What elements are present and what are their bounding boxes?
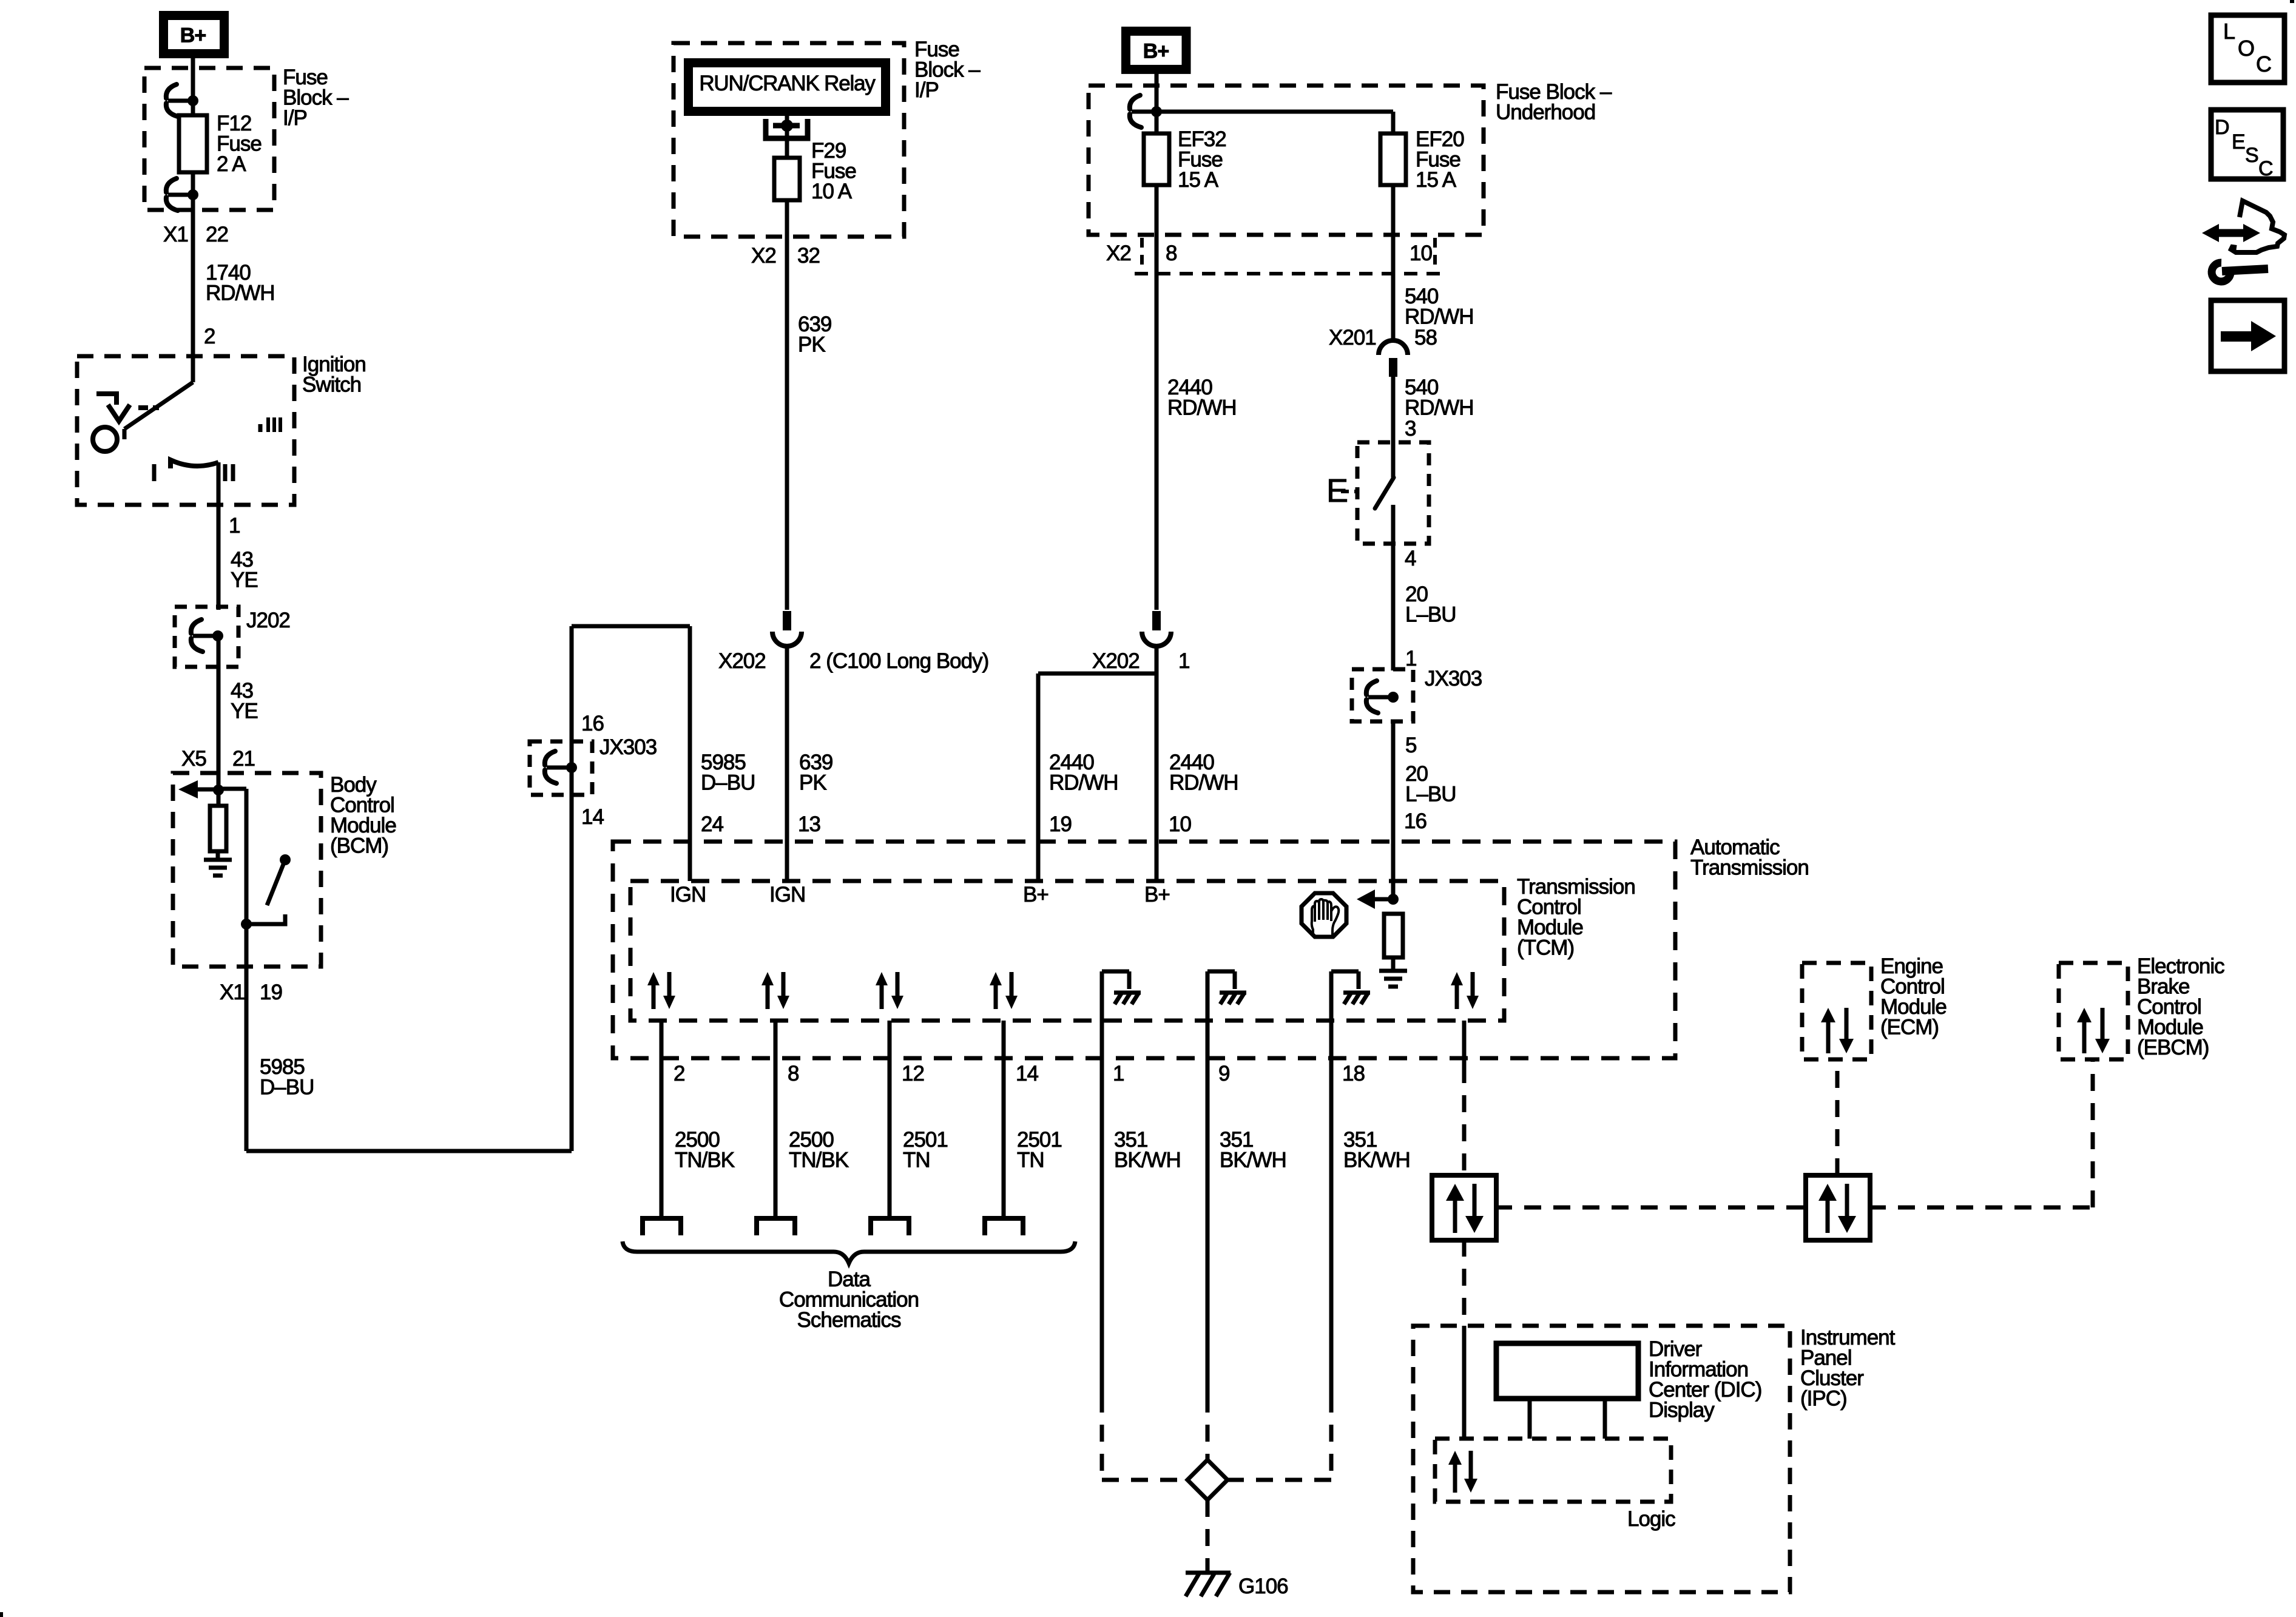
svg-text:21: 21 xyxy=(232,747,255,771)
TCM pin 1 bracket vertical xyxy=(1100,971,1104,1021)
svg-text:EF32Fuse15 A: EF32Fuse15 A xyxy=(1178,127,1226,192)
ground G106 symbol xyxy=(1186,1573,1231,1596)
BCM internal arrow left xyxy=(178,780,218,798)
serial data dashed up to ECM xyxy=(1835,1059,1840,1175)
svg-text:540RD/WH: 540RD/WH xyxy=(1405,285,1474,329)
BCM resistor lower lead xyxy=(216,851,220,860)
svg-text:F12Fuse2 A: F12Fuse2 A xyxy=(217,112,262,176)
page corner mark xyxy=(2290,0,2294,3)
ignition switch output wire xyxy=(217,462,221,610)
page corner mark bottom left xyxy=(0,1612,3,1617)
DIC display box xyxy=(1496,1343,1638,1399)
DLC stub connector pin 12 xyxy=(871,1218,909,1235)
svg-text:FuseBlock –I/P: FuseBlock –I/P xyxy=(914,38,981,102)
switch E output stub xyxy=(1391,505,1396,544)
svg-text:X2: X2 xyxy=(751,244,776,268)
svg-text:JX303: JX303 xyxy=(599,735,657,759)
stop-hand octagon symbol xyxy=(1302,893,1346,937)
BCM internal ground xyxy=(204,860,232,876)
wire 5985 D-BU bottom horizontal run xyxy=(246,1149,572,1153)
serial data box arrows (TCM side) xyxy=(1446,1184,1484,1233)
TCM pin 9 bracket vertical xyxy=(1206,971,1210,1021)
wire B+ down to EF32 xyxy=(1155,73,1159,133)
BCM switch blade diagonal xyxy=(267,860,285,905)
svg-text:DriverInformationCenter (DIC)D: DriverInformationCenter (DIC)Display xyxy=(1649,1337,1761,1422)
wire 20 L-BU lower xyxy=(1391,721,1396,899)
svg-text:1: 1 xyxy=(1405,647,1416,670)
svg-text:2: 2 xyxy=(204,325,215,348)
B+ battery feed terminal (right) xyxy=(1126,31,1187,69)
svg-text:1: 1 xyxy=(229,514,240,538)
svg-text:14: 14 xyxy=(1016,1062,1038,1085)
svg-text:EngineControlModule(ECM): EngineControlModule(ECM) xyxy=(1880,954,1947,1039)
svg-text:B+: B+ xyxy=(1144,883,1170,906)
wire B+ to ignition switch vertical xyxy=(191,58,195,382)
dashed wire pin18 to diamond xyxy=(1226,1478,1331,1482)
svg-text:8: 8 xyxy=(788,1062,799,1085)
wire 2440 RD/WH long vertical xyxy=(1155,185,1159,610)
svg-text:18: 18 xyxy=(1342,1062,1365,1085)
IPC logic dashed box xyxy=(1435,1439,1671,1502)
TCM pin 18 bracket down leg xyxy=(1357,971,1361,989)
svg-text:D: D xyxy=(2215,116,2229,139)
svg-text:3: 3 xyxy=(1405,417,1416,441)
body control module BCM dashed box xyxy=(173,773,321,967)
svg-text:351BK/WH: 351BK/WH xyxy=(1220,1128,1286,1172)
TCM pin 18 bracket horizontal xyxy=(1331,970,1359,974)
X2 connector row bottom dashed xyxy=(1135,272,1444,275)
wire pin 8 down to DLC stub xyxy=(774,1021,778,1218)
dashed wire pin1 to diamond xyxy=(1102,1478,1190,1482)
ignition key symbol xyxy=(96,394,159,421)
DLC stub connector pin 2 xyxy=(643,1218,681,1235)
DIC display left leg xyxy=(1528,1399,1532,1439)
svg-text:2440RD/WH: 2440RD/WH xyxy=(1169,751,1238,795)
svg-text:19: 19 xyxy=(1049,812,1072,836)
BCM internal wire to junction xyxy=(217,773,221,807)
svg-text:8: 8 xyxy=(1166,241,1177,265)
wire 20 L-BU upper xyxy=(1391,544,1396,670)
svg-text:E: E xyxy=(2232,130,2245,154)
TCM pin 18 chassis ground hatch xyxy=(1343,993,1370,1004)
svg-text:B+: B+ xyxy=(1143,39,1169,62)
wire 2440 to TCM pin 19 xyxy=(1036,673,1041,881)
BCM pull-up resistor xyxy=(210,806,226,851)
bus wire EF32 to EF20 xyxy=(1156,110,1393,114)
wire 2440 to TCM pin 10 xyxy=(1155,645,1159,881)
wire 540 RD/WH upper vertical xyxy=(1391,185,1396,340)
BCM branch horizontal to switch leg xyxy=(218,787,246,791)
underhood fuse block input clip xyxy=(1130,95,1162,127)
svg-text:13: 13 xyxy=(798,812,820,836)
BCM switch upper contact dot xyxy=(280,854,291,865)
TCM internal ground xyxy=(1379,971,1407,987)
svg-text:58: 58 xyxy=(1414,326,1437,349)
splice JX303 connector (left) xyxy=(545,751,577,783)
svg-text:2: 2 xyxy=(674,1062,684,1085)
engine control module ECM dashed box xyxy=(1802,963,1871,1059)
serial data wire below TCM solid xyxy=(1462,1021,1467,1066)
ignition position I tick xyxy=(152,464,157,481)
TCM resistor lower lead xyxy=(1391,957,1396,970)
svg-text:IGN: IGN xyxy=(769,883,805,906)
svg-text:IGN: IGN xyxy=(670,883,706,906)
svg-text:C: C xyxy=(2256,52,2271,76)
wire pin 14 down to DLC stub xyxy=(1002,1021,1006,1218)
fuse EF20 15A xyxy=(1380,133,1406,185)
svg-text:EF20Fuse15 A: EF20Fuse15 A xyxy=(1416,127,1464,192)
fuse block input clip top xyxy=(166,84,198,116)
icon wrench xyxy=(2212,263,2268,282)
icon vehicle with arrow xyxy=(2202,201,2284,252)
svg-text:S: S xyxy=(2245,144,2258,167)
svg-text:43YE: 43YE xyxy=(231,679,258,723)
dashed wire pin1 down xyxy=(1100,1396,1104,1480)
TCM internal resistor xyxy=(1384,914,1403,957)
electronic brake control module EBCM dashed box xyxy=(2059,963,2128,1059)
svg-text:B+: B+ xyxy=(1023,883,1048,906)
svg-text:1: 1 xyxy=(1113,1062,1124,1085)
svg-text:J202: J202 xyxy=(246,609,290,632)
TCM pin 9 chassis ground hatch xyxy=(1220,993,1246,1004)
svg-text:O: O xyxy=(2238,36,2254,61)
svg-text:2440RD/WH: 2440RD/WH xyxy=(1049,751,1118,795)
svg-text:ElectronicBrakeControlModule(E: ElectronicBrakeControlModule(EBCM) xyxy=(2137,954,2224,1059)
relay output terminal symbol xyxy=(766,119,808,138)
svg-text:F29Fuse10 A: F29Fuse10 A xyxy=(811,139,856,203)
splice JX303 dashed box (right) xyxy=(1352,669,1413,721)
IPC logic arrows xyxy=(1448,1451,1477,1493)
DIC display right leg xyxy=(1603,1399,1607,1439)
svg-text:16: 16 xyxy=(1404,809,1427,833)
svg-text:InstrumentPanelCluster(IPC): InstrumentPanelCluster(IPC) xyxy=(1800,1326,1896,1411)
fuse block output clip bottom xyxy=(166,178,198,211)
svg-text:1740RD/WH: 1740RD/WH xyxy=(206,261,275,305)
TCM pin 1 bracket horizontal xyxy=(1102,970,1129,974)
dashed wire pin9 to diamond xyxy=(1206,1396,1210,1462)
fuse block underhood dashed box xyxy=(1089,86,1484,235)
ignition switch contact arc xyxy=(171,460,218,468)
RUN/CRANK relay box xyxy=(689,63,886,112)
TCM data pin 8 arrows xyxy=(761,972,789,1009)
serial data dashed up to EBCM xyxy=(2091,1059,2095,1207)
splice J202 dashed box xyxy=(175,607,238,667)
dashed wire diamond to G106 xyxy=(1206,1500,1210,1573)
automatic transmission outer dashed box xyxy=(613,842,1675,1058)
serial data connector box (ECM side) xyxy=(1806,1175,1870,1240)
svg-text:5985D–BU: 5985D–BU xyxy=(260,1055,314,1099)
svg-text:BodyControlModule(BCM): BodyControlModule(BCM) xyxy=(330,773,396,858)
TCM data pin 14 arrows xyxy=(990,972,1018,1009)
fuse F29 10A xyxy=(774,158,800,200)
svg-text:19: 19 xyxy=(260,981,282,1004)
svg-text:JX303: JX303 xyxy=(1425,667,1482,690)
svg-text:2501TN: 2501TN xyxy=(1017,1128,1062,1172)
svg-text:12: 12 xyxy=(902,1062,924,1085)
TCM pin 1 bracket down leg xyxy=(1127,971,1132,989)
switch E blade diagonal xyxy=(1375,478,1394,508)
TCM pin 9 bracket horizontal xyxy=(1207,970,1235,974)
connector X202 (639 PK) xyxy=(772,611,802,646)
wire 5985 D-BU riser vertical xyxy=(570,626,574,1151)
svg-text:X202: X202 xyxy=(718,649,766,673)
serial data dashed down to IPC xyxy=(1462,1240,1467,1326)
svg-text:X1: X1 xyxy=(163,223,188,246)
BCM switch leg vertical xyxy=(245,789,249,967)
ignition switch dashed box xyxy=(77,356,294,505)
fuse block - I/P dashed box (middle) xyxy=(674,43,904,237)
svg-text:X202: X202 xyxy=(1092,649,1140,673)
BCM input junction dot xyxy=(213,785,224,795)
wire 351 BK/WH pin 18 solid xyxy=(1329,1021,1334,1396)
svg-text:22: 22 xyxy=(206,223,228,246)
wire 5985 D-BU vertical from BCM xyxy=(245,967,249,1151)
switch E input stub xyxy=(1391,442,1396,478)
data communication brace xyxy=(623,1241,1075,1263)
ignition switch arm end stub xyxy=(123,429,127,439)
svg-text:X1: X1 xyxy=(220,981,245,1004)
wire 351 BK/WH pin 9 solid xyxy=(1206,1021,1210,1396)
svg-text:351BK/WH: 351BK/WH xyxy=(1343,1128,1410,1172)
DLC stub connector pin 8 xyxy=(757,1218,795,1235)
ignition position III ticks xyxy=(260,417,280,432)
transmission control module TCM dashed box xyxy=(630,881,1504,1021)
TCM 540 junction dot xyxy=(1388,894,1399,905)
TCM serial data pin arrows (right) xyxy=(1451,972,1479,1009)
ignition switch movable arm diagonal xyxy=(124,382,193,429)
park/neutral switch dashed box xyxy=(1357,442,1429,544)
branch 2440 horizontal xyxy=(1038,672,1156,676)
fuse block - I/P dashed box (left) xyxy=(144,68,274,210)
svg-text:20L–BU: 20L–BU xyxy=(1405,582,1456,627)
svg-text:X5: X5 xyxy=(181,747,206,771)
wire 5985 D-BU to TCM pin 24 xyxy=(688,626,692,881)
icon forward arrow box xyxy=(2211,300,2284,371)
connector X201 xyxy=(1379,340,1408,377)
wire pin 2 down to DLC stub xyxy=(660,1021,664,1218)
svg-text:14: 14 xyxy=(581,805,604,829)
wire 351 BK/WH pin 1 solid xyxy=(1100,1021,1104,1396)
wire 639 PK vertical xyxy=(785,200,789,610)
EBCM internal arrows xyxy=(2077,1008,2110,1053)
svg-text:2 (C100 Long Body): 2 (C100 Long Body) xyxy=(809,649,988,673)
BCM switch lower junction dot xyxy=(241,919,252,930)
svg-text:Logic: Logic xyxy=(1627,1507,1675,1531)
svg-text:351BK/WH: 351BK/WH xyxy=(1114,1128,1181,1172)
svg-text:FuseBlock –I/P: FuseBlock –I/P xyxy=(283,66,349,130)
wire 43 YE lower segment xyxy=(217,636,221,773)
svg-text:B+: B+ xyxy=(180,24,206,47)
instrument panel cluster IPC dashed box xyxy=(1413,1326,1790,1592)
splice diamond symbol xyxy=(1187,1460,1227,1500)
fuse EF32 15A xyxy=(1144,133,1169,185)
svg-text:2500TN/BK: 2500TN/BK xyxy=(789,1128,849,1172)
wire 639 PK to TCM pin 13 xyxy=(785,645,789,881)
svg-text:639PK: 639PK xyxy=(798,312,831,357)
B+ battery feed terminal (left) xyxy=(164,16,225,54)
svg-text:AutomaticTransmission: AutomaticTransmission xyxy=(1690,836,1809,880)
svg-text:C: C xyxy=(2258,157,2273,180)
svg-text:10: 10 xyxy=(1410,241,1432,265)
svg-text:X201: X201 xyxy=(1329,326,1376,349)
svg-text:DataCommunicationSchematics: DataCommunicationSchematics xyxy=(779,1268,919,1332)
serial data dashed horizontal 2 xyxy=(1869,1206,2093,1210)
serial data connector box (TCM side) xyxy=(1432,1175,1496,1240)
wire 5985 D-BU top horizontal xyxy=(572,624,690,629)
splice JX303 connector (right) xyxy=(1366,681,1399,713)
icon DESC box xyxy=(2211,110,2283,180)
TCM arrow to stop-hand xyxy=(1357,890,1393,909)
svg-text:X2: X2 xyxy=(1106,241,1131,265)
svg-text:4: 4 xyxy=(1405,547,1416,570)
svg-text:5985D–BU: 5985D–BU xyxy=(701,751,755,795)
ignition position II ticks xyxy=(223,464,228,481)
X2 connector row left tick xyxy=(1140,238,1144,274)
wire bus down to EF20 xyxy=(1391,112,1396,133)
TCM data pin 12 arrows xyxy=(876,972,903,1009)
svg-text:TransmissionControlModule(TCM): TransmissionControlModule(TCM) xyxy=(1517,875,1635,960)
X2 connector row right tick xyxy=(1433,238,1437,274)
icon LOC box xyxy=(2211,15,2284,83)
svg-text:639PK: 639PK xyxy=(799,751,832,795)
splice J202 connector xyxy=(191,619,223,652)
svg-text:20L–BU: 20L–BU xyxy=(1405,762,1456,806)
wire relay to fuse F29 xyxy=(785,116,789,159)
svg-text:32: 32 xyxy=(797,244,820,268)
svg-text:5: 5 xyxy=(1405,734,1416,757)
dashed wire pin18 down xyxy=(1329,1396,1334,1480)
svg-text:Fuse Block –Underhood: Fuse Block –Underhood xyxy=(1496,80,1612,124)
TCM pin 9 bracket down leg xyxy=(1233,971,1237,989)
svg-text:10: 10 xyxy=(1169,812,1191,836)
svg-text:1: 1 xyxy=(1178,649,1189,673)
wire pin 12 down to DLC stub xyxy=(888,1021,892,1218)
svg-text:540RD/WH: 540RD/WH xyxy=(1405,376,1474,420)
splice JX303 dashed box (left) xyxy=(530,741,592,795)
ignition switch pivot circle xyxy=(93,427,117,451)
serial data wire dashed to box xyxy=(1462,1066,1467,1175)
TCM pin 1 chassis ground hatch xyxy=(1114,993,1141,1004)
svg-text:43YE: 43YE xyxy=(231,548,258,592)
svg-text:9: 9 xyxy=(1218,1062,1229,1085)
svg-text:IgnitionSwitch: IgnitionSwitch xyxy=(302,353,366,397)
svg-text:2500TN/BK: 2500TN/BK xyxy=(675,1128,735,1172)
fuse F12 2A xyxy=(179,115,207,172)
svg-text:2501TN: 2501TN xyxy=(903,1128,948,1172)
svg-text:24: 24 xyxy=(701,812,723,836)
svg-text:G106: G106 xyxy=(1238,1575,1288,1598)
DLC stub connector pin 14 xyxy=(985,1218,1023,1235)
TCM data pin 2 arrows xyxy=(647,972,675,1009)
svg-text:2440RD/WH: 2440RD/WH xyxy=(1167,376,1237,420)
IPC internal wire xyxy=(1462,1326,1467,1439)
svg-text:L: L xyxy=(2223,19,2235,44)
svg-text:16: 16 xyxy=(581,712,604,735)
wire 540 RD/WH lower vertical xyxy=(1391,376,1396,442)
svg-text:RUN/CRANK Relay: RUN/CRANK Relay xyxy=(699,72,876,95)
serial data dashed horizontal xyxy=(1495,1206,1806,1210)
connector X202 (2440 RD/WH) xyxy=(1142,611,1171,646)
TCM pin 18 bracket vertical xyxy=(1329,971,1334,1021)
BCM switch lower contact hook xyxy=(246,914,285,924)
ECM internal arrows xyxy=(1821,1008,1854,1053)
serial data box arrows (ECM side) xyxy=(1818,1184,1856,1233)
dash E to switch box xyxy=(1341,490,1359,493)
